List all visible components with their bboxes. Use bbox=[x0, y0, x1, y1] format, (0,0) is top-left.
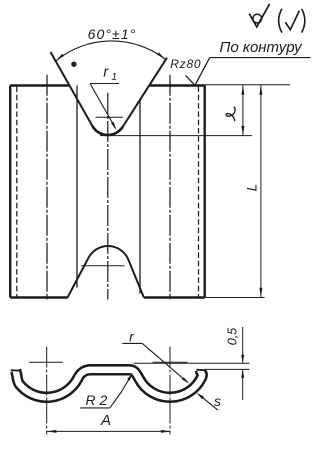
svg-text:По контуру: По контуру bbox=[220, 39, 304, 56]
svg-text:R 2: R 2 bbox=[86, 392, 108, 408]
svg-text:s: s bbox=[214, 393, 221, 409]
svg-text:60°±1°: 60°±1° bbox=[88, 26, 137, 42]
svg-text:0,5: 0,5 bbox=[226, 328, 240, 345]
svg-text:Rz80: Rz80 bbox=[170, 57, 201, 71]
svg-text:A: A bbox=[100, 412, 111, 429]
svg-text:1: 1 bbox=[111, 71, 117, 83]
svg-text:L: L bbox=[245, 184, 260, 192]
